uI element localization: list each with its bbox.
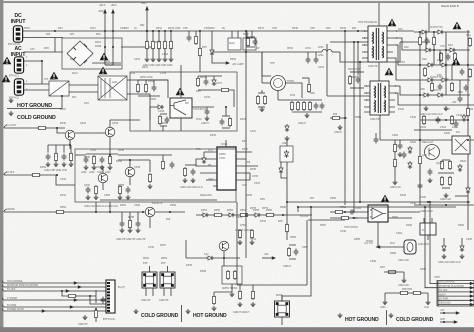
capacitor CP78 [320, 103, 325, 110]
junction x360 y202 [359, 201, 361, 203]
junction chain 1 [146, 30, 148, 32]
connector P3 AC input 2 [14, 79, 23, 95]
wire C1 drop b [205, 76, 207, 79]
junction rx4 [427, 201, 429, 203]
degauss coil LP01 [322, 50, 332, 52]
wire y42 to transformer [330, 41, 372, 43]
wire x376 seg [375, 133, 377, 137]
small IC box bottom right [420, 223, 436, 235]
wire C1 link [214, 90, 234, 107]
ground right area1 [444, 193, 449, 198]
wire CP11 up [307, 52, 309, 57]
resistor RPD2 below circle [263, 95, 266, 105]
junction y212 x4 [56, 174, 58, 176]
resistor RS33 [393, 143, 396, 153]
resistor RP70 [348, 75, 351, 85]
junction rx1 [467, 139, 469, 141]
wire TOP drain above box [180, 65, 182, 72]
ground under CP21 [205, 116, 210, 121]
diode DS06 [424, 48, 432, 52]
ground y125 x340 [338, 125, 343, 130]
transformer T1 pins [362, 31, 393, 58]
wire snubber tie y88 [350, 87, 364, 89]
wire C1 drop a [197, 76, 199, 77]
wire fan MONITOR PWR PLATFORM [5, 286, 108, 288]
ground CS49 [398, 152, 403, 157]
warning triangle above T2 [385, 68, 394, 76]
5V regulator section box [75, 149, 236, 202]
bottom page border bar [0, 327, 474, 332]
opamp IC US21 X mark [455, 139, 467, 151]
ground RS51 [402, 278, 407, 283]
resistor RPD1 below circle [256, 95, 259, 105]
wire QP48 wires [129, 160, 131, 185]
wire +B2 feed 3 riser [146, 7, 148, 32]
junction y31 x113b [112, 46, 114, 48]
diode DS01 [420, 30, 428, 34]
junction extra1 [443, 312, 445, 314]
TOP switch IC U1 box [170, 98, 192, 118]
capacitor CP87 small [294, 249, 299, 256]
resistor RS05 [432, 36, 435, 46]
wire T1 sec out 2 [393, 38, 418, 50]
resistor RS46 [468, 37, 471, 47]
wire 5V OFF y175 [4, 174, 56, 176]
wire box internal y160 [118, 159, 150, 161]
wire right mid x420b [419, 105, 421, 205]
junction y31 x105b [104, 46, 106, 48]
ground under RP91 [251, 302, 256, 307]
resistor RP86 [285, 223, 288, 233]
wire RP06 drop [195, 31, 197, 35]
wire box internal y155 [75, 154, 86, 156]
ground under RP14 [169, 57, 174, 62]
wire x237 drop [236, 202, 238, 285]
ground under reg part 3 [100, 165, 105, 170]
capacitor CPL7 in box [170, 162, 175, 169]
wire bottom right extra1 [440, 312, 456, 314]
junction tr2 [433, 31, 435, 33]
arrow fan 4 [74, 298, 78, 301]
junction y31 x345 [344, 30, 346, 32]
hot ground symbol bottom-right [338, 313, 343, 318]
wire filter out top [127, 80, 168, 98]
wire filter out bottom [127, 94, 150, 120]
resistor RP13 chain [163, 40, 166, 50]
wire col x395 [394, 140, 396, 180]
transformer T2 primary coil2 [374, 100, 377, 112]
wire snubber tie y72 [350, 71, 364, 73]
resistor RPL2 left cluster [54, 152, 57, 162]
fan hook MONITOR PWR PLATFORM [2, 285, 4, 287]
resistor RS47 [468, 68, 471, 78]
capacitor CP12 degauss [314, 57, 319, 64]
cold ground symbol bottom-mid [134, 309, 139, 314]
wire y140 sec rail stub [380, 139, 420, 141]
wire vertical bus x360 [359, 62, 361, 202]
TOP switch transistor symbol [170, 100, 186, 115]
ground left cluster 3 [62, 162, 67, 167]
wire fan nested 1 [95, 296, 97, 303]
wire schottky row y32 [414, 31, 470, 33]
ground under reg part 2 [92, 165, 97, 170]
wire right mid y140 [420, 139, 474, 141]
heater sub box [222, 266, 242, 284]
wire rs pair tie y188 [442, 187, 450, 189]
ground under DS41 [460, 254, 465, 259]
wire hang RP90 [239, 285, 241, 290]
wire C1 drop c [213, 76, 215, 78]
connector P2 AC input body [14, 57, 23, 73]
wire drop cap row3 3 [137, 212, 139, 221]
wire main B+ rail y31 [23, 30, 372, 32]
ground under RP10 [145, 57, 150, 62]
wire resistor chain drop 3 [158, 31, 160, 57]
resistor RP06 on rail [194, 35, 197, 45]
capacitor CPL9 in box [191, 169, 196, 176]
resistor RF01 fan [67, 294, 77, 297]
wire SMPS right pin wires [240, 152, 258, 180]
wire right y120 tie [420, 119, 468, 121]
diode DS10 [426, 63, 434, 67]
wire IC box stubs [424, 218, 432, 240]
junction y31 x379 [357, 41, 359, 43]
wire T1 to T2 link [378, 62, 380, 81]
transistor QP47 [98, 173, 108, 183]
junction y128 [56, 127, 58, 129]
arrow stack AKB F [470, 294, 474, 297]
junction y52 x42 [41, 60, 43, 62]
resistor RP75 [302, 101, 305, 111]
wire DP24 left [150, 106, 156, 108]
wire +5V ON stub [376, 246, 404, 248]
junction left cluster [69, 144, 71, 146]
hot ground symbol bottom-mid [186, 309, 191, 314]
wire degauss top y52 [212, 51, 322, 53]
wire row under SMPS y215 [196, 214, 312, 216]
wire stack feed 2 [425, 207, 438, 288]
wire +B2 feed 1 [104, 10, 106, 66]
ground under CS26 [428, 178, 433, 183]
junction fan x62 y291 [61, 290, 63, 292]
capacitor CS15 [438, 84, 443, 91]
wire y118 x330-347 [330, 117, 347, 119]
transformer T2 pins [364, 86, 395, 112]
wire AC2 pin1 y84 [24, 83, 49, 85]
capacitor CS08 [446, 54, 451, 61]
capacitor CP59 [126, 187, 131, 194]
arrow fan 2 [78, 285, 82, 288]
wire RH07 tie [214, 291, 232, 293]
wire QP42 emitter down [109, 137, 111, 155]
wire x105-113 bottom tie [105, 64, 113, 66]
capacitor CP22 in box [152, 85, 157, 92]
junction y202 x468 [467, 201, 469, 203]
resistor RS30 [450, 115, 453, 125]
junction tr4 [419, 64, 421, 66]
wire relay to filter y85 [69, 84, 98, 86]
resistor RS03 [418, 36, 421, 46]
wire +B2 LAMP stub [212, 56, 228, 63]
capacitor CS49 y140 [398, 143, 403, 150]
wire DP02 up [211, 31, 213, 48]
connector P2 AC input [3, 57, 12, 65]
wire DP61 tail [281, 174, 287, 178]
wire T2 bottom [379, 115, 381, 140]
wire C1 tie y116 [222, 115, 230, 117]
junction chain 2 [152, 30, 154, 32]
wire schottky row y80 [424, 79, 470, 81]
left page border bar [0, 0, 3, 332]
junction bridge B+ 1 [104, 30, 106, 32]
wire right bus x452 [451, 65, 453, 80]
junction chain 4 [164, 30, 166, 32]
wire left cluster drop 1 [47, 145, 49, 153]
capacitor CS48 [464, 85, 469, 92]
ground under RP58 [118, 195, 123, 200]
resistor RS22 [440, 160, 443, 170]
wire T1 sec out 4 [393, 58, 424, 80]
wire snubber drop [357, 42, 359, 76]
signal stack enclosure box [437, 281, 474, 307]
arrow bottom right extra1 [456, 311, 460, 314]
arrow up +B2 feed 1 [103, 9, 107, 13]
junction y212 x150 [142, 211, 144, 213]
ground under RP13 [163, 57, 168, 62]
wire coil out [332, 51, 340, 53]
resistor RC4 in C1 [220, 88, 230, 91]
junction y31 x200 [199, 30, 201, 32]
wire heater y258 [186, 257, 240, 259]
resistor RP10 chain [145, 40, 148, 50]
resistor RP12 chain [157, 40, 160, 50]
fan hook POWER GOOD [2, 309, 4, 311]
diode DP30 transorb [202, 156, 206, 164]
wire RP96 tie bottom [248, 46, 255, 48]
wire heater left x186 [185, 240, 187, 258]
wire top of reg area y128 [4, 127, 65, 129]
connector strip BTP PLUG [106, 280, 115, 313]
wire DC return y37 [23, 37, 63, 39]
diode DS13 [426, 78, 434, 82]
resistor RP73 [290, 101, 293, 111]
resistor RS51 [387, 270, 397, 273]
resistor RS11 [423, 67, 426, 77]
arrow bottom right extra2 [454, 320, 458, 323]
diode DS40 [442, 244, 446, 252]
warning triangle right of T1 [388, 19, 397, 27]
wire QP47 wires [102, 166, 104, 190]
capacitor CP64 [120, 221, 125, 228]
resistor RP65 [128, 219, 131, 229]
wire C1 tie y114 [160, 113, 167, 115]
junction QP48 y160 [129, 159, 131, 161]
capacitor CS26 [428, 169, 433, 176]
bridge rectifier DP01 diamond [67, 41, 93, 66]
wire right mid y130 [414, 129, 452, 131]
wire DC return drop [54, 38, 56, 53]
gnd tr x446 [444, 106, 449, 111]
resistor RC7 in C1 [158, 115, 161, 125]
wire fan POWER GOOD [5, 310, 108, 312]
aux rectifier box [280, 146, 293, 162]
wire y200 under box [100, 199, 217, 201]
junction tr6 [433, 49, 435, 51]
wire fan P SHORT [5, 299, 108, 301]
wire SMPS left pin wires [196, 152, 213, 180]
resistor RH04 [233, 270, 236, 280]
wire resistor chain drop 4 [164, 31, 166, 57]
junction y140 x420 [419, 139, 421, 141]
wire x262 drop [261, 52, 263, 83]
fan hook 5V OFF [2, 289, 4, 291]
wire x311 to MP03 [282, 207, 311, 301]
resistor RSX3 [418, 155, 421, 165]
wire AC2 pin2 y90 [24, 89, 49, 91]
resistor RP82 on y212 [334, 210, 344, 213]
ground right res pair [426, 300, 431, 305]
arrow right y258 [272, 256, 276, 259]
wire degauss to thermistor [262, 52, 271, 76]
wire RS51 wire [384, 271, 404, 273]
capacitor CP11 degauss [306, 57, 311, 64]
junction y31 x358 [357, 30, 359, 32]
wire 5V OFF drop [56, 175, 75, 185]
junction rx2 [419, 139, 421, 141]
connector P1 DC input [13, 26, 22, 42]
separator line bottom-right ground labels [386, 310, 388, 325]
arrow fan 5 [70, 305, 74, 308]
diode DS02 [436, 30, 444, 34]
capacitor CC2 in C1 [204, 79, 209, 86]
wire left cluster drop 3 [63, 145, 65, 153]
resistor RP60 on y175 [31, 173, 41, 176]
diode DS31 [462, 114, 466, 122]
warning triangle top right 2 [452, 58, 461, 66]
wire reg tie y154 [86, 153, 118, 155]
wire RP96 tie top [248, 36, 255, 38]
junction y212 x110 [109, 211, 111, 213]
warning triangle above relay [50, 72, 59, 80]
junction hot ground return [61, 95, 63, 97]
bridge rectifier outline box [62, 38, 122, 69]
ground left cluster 2 [54, 162, 59, 167]
arrow stack MONITOR PLATFORM [470, 286, 474, 289]
resistor RP80 [331, 116, 341, 119]
photocoupler IC PC601 [368, 205, 388, 222]
wire thermistor out [285, 83, 302, 98]
wire left cluster drop 2 [55, 145, 57, 153]
ground RPL5 [148, 184, 153, 189]
resistor RS25 [448, 176, 451, 186]
X connector heater MP03 [275, 301, 290, 317]
wire hot ground return [7, 96, 62, 109]
resistor RS23 [448, 160, 451, 170]
resistor RPL5 in box [148, 173, 151, 183]
diode DP60 in aux box [284, 150, 288, 158]
diode DS17 [422, 93, 430, 97]
wire schottky row y95 [418, 94, 470, 96]
ground left res pair [383, 300, 388, 305]
wire box bottom y285 [237, 284, 307, 286]
resistor RS34 [393, 158, 396, 168]
wire left hook y212 [4, 210, 7, 213]
ground RH05 [238, 240, 243, 245]
ground under reg part 4 [108, 165, 113, 170]
wire hang RP91 [252, 285, 254, 290]
wire left hook y128 [4, 126, 7, 129]
wire CP12 up [315, 52, 317, 57]
wire fan nested 2 [90, 296, 107, 304]
junction tr10 [467, 119, 469, 121]
wire signal stack DEGAUSS [438, 304, 474, 306]
wire CP22 top [153, 80, 155, 85]
wire in-box tie y96 [138, 95, 160, 97]
wire aux box down [286, 162, 288, 202]
resistor RS14 [430, 82, 433, 92]
arrow stack 5V PWR [470, 299, 474, 302]
junction y207 x425 [424, 206, 426, 208]
wire signal stack AKB F [438, 295, 474, 297]
junction heater [223, 257, 225, 259]
transistor QP42 [105, 127, 115, 137]
wire box internal x150 [149, 160, 151, 172]
wire signal stack MONITOR PLATFORM [438, 287, 474, 289]
transformer T1 primary coil2 [372, 46, 375, 58]
wire RPD feed [261, 90, 263, 93]
resistor RP90 [238, 290, 241, 300]
regulator transistor QS20 inner [429, 148, 435, 157]
wire vertical bus x345 [344, 31, 346, 205]
transistor QH01 [219, 241, 229, 251]
wire MP02 bottom stub [164, 288, 171, 296]
resistor RH07 below heater [212, 295, 215, 305]
ground cap row3 3 [136, 228, 141, 233]
wire vertical bus x246 [245, 31, 247, 258]
junction row y215 [282, 214, 284, 216]
warning triangle above line filter [99, 67, 108, 75]
degauss thermistor circle [271, 76, 286, 91]
capacitor CPL3 left cluster [62, 154, 67, 161]
junction x311 y207 [310, 206, 312, 208]
resistor RP11 chain [151, 40, 154, 50]
capacitor CP05 on rail [187, 35, 192, 42]
diode DS36 [408, 146, 412, 154]
wire photocoupler down [377, 222, 379, 248]
ground under DS40 [442, 254, 447, 259]
wire RPD tie top [258, 92, 265, 94]
resistor RP76 [308, 101, 311, 111]
wire drop cap row3 1 [121, 212, 123, 221]
SMPS IC pins left [213, 152, 217, 186]
wire x307 drop [306, 220, 308, 285]
wire right bus x446 [445, 32, 447, 95]
resistor RP84 on y218 [340, 216, 350, 219]
resistor RP40 on y128 [37, 126, 47, 129]
wire left hook y175 [4, 173, 7, 176]
wire MP02 top stub [167, 266, 169, 272]
capacitor CPL1 left cluster [46, 154, 51, 161]
transformer T2 secondary coil2 [384, 100, 387, 112]
diode row under SMPS 5 [253, 213, 261, 217]
wire MP03 bottom stub [281, 317, 283, 325]
wire right bus x440 [439, 50, 441, 65]
wire aux side [280, 162, 282, 166]
junction tr9 [445, 119, 447, 121]
resistor RS07 [439, 52, 442, 62]
ground left cluster 1 [46, 162, 51, 167]
warning triangle above TOP switch [176, 88, 185, 96]
